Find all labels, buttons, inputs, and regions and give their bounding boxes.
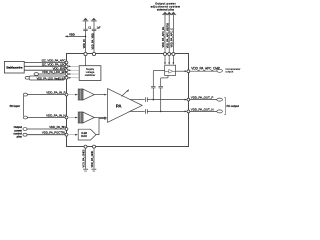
svg-text:VDD_PA_APC_CMP: VDD_PA_APC_CMP	[191, 67, 220, 71]
off-page arrow up A2	[167, 12, 171, 15]
svg-text:VDD_PA_GND: VDD_PA_GND	[90, 151, 94, 168]
wire to comparator oval	[190, 70, 217, 72]
svg-text:VCO_PA_GND1: VCO_PA_GND1	[81, 149, 85, 168]
wire IN_P	[27, 94, 65, 96]
arrow row3 to stabilizer	[68, 69, 79, 71]
arrow row2 to stabilizer	[68, 65, 79, 67]
pin row2	[65, 65, 68, 68]
off-page arrow up A1	[163, 12, 167, 15]
PA input pin N	[23, 116, 27, 119]
wire OUT_P	[147, 99, 185, 101]
pin top1	[84, 52, 87, 55]
PA output stub P	[130, 99, 145, 101]
pin OUT_N	[187, 110, 190, 113]
pin top2	[92, 52, 95, 55]
svg-text:VDD_PA_APC_C: VDD_PA_APC_C	[170, 28, 174, 48]
main IC block	[67, 54, 189, 147]
supply line 2 column	[93, 21, 95, 54]
capacitor C6	[145, 109, 147, 114]
svg-text:1uF: 1uF	[97, 27, 102, 29]
PA output stub N	[130, 110, 145, 112]
svg-text:stabilizer: stabilizer	[85, 73, 96, 77]
arrow into preamp 1	[68, 94, 76, 96]
riser 1 from OUT_P to comparator	[153, 71, 164, 100]
wire preamp1 to PA	[94, 94, 104, 96]
comparator box U4	[165, 65, 176, 75]
svg-text:VDD_PA_BN: VDD_PA_BN	[49, 125, 65, 129]
supply line 1 VDD column	[85, 21, 87, 65]
pin edge IN_P	[65, 93, 68, 96]
svg-text:VDD_PA_APC_BL: VDD_PA_APC_BL	[161, 26, 165, 47]
wire preamp2 to PA	[94, 117, 104, 119]
VDD tap	[85, 36, 87, 38]
pin CMP	[187, 70, 190, 73]
capacitor C4	[159, 86, 163, 88]
svg-text:VDD_PA_APC_REF18: VDD_PA_APC_REF18	[165, 22, 169, 48]
pin P5 capsule	[25, 76, 29, 79]
PA amplifier triangle	[108, 89, 143, 123]
arrow into preamp 2	[68, 117, 76, 119]
bottom pin GND1	[84, 145, 87, 148]
wire bus row5	[30, 77, 66, 79]
wire to oval OUT_P	[190, 99, 217, 101]
arrow into DAC	[68, 134, 76, 136]
svg-text:VDD_PA_IN_N: VDD_PA_IN_N	[46, 113, 65, 117]
preamp A1	[78, 89, 83, 100]
svg-text:C1: C1	[88, 27, 92, 29]
supply voltage stabilizer U3	[79, 66, 101, 81]
pin edge PGCTRL	[65, 133, 68, 136]
pin row3	[65, 69, 68, 72]
comparator output wire	[176, 70, 186, 72]
APC line 3	[172, 15, 174, 54]
svg-text:VDD_PA_OUT_N: VDD_PA_OUT_N	[191, 107, 214, 111]
wire BN	[27, 128, 65, 130]
svg-text:PA output: PA output	[227, 104, 239, 108]
capacitor C2	[92, 29, 97, 30]
svg-text:VDD_PA_LDO_EN: VDD_PA_LDO_EN	[42, 70, 66, 74]
svg-text:VDD_PA_PGCTRL: VDD_PA_PGCTRL	[42, 131, 66, 135]
APC line 2	[168, 15, 170, 54]
pin row1	[65, 61, 68, 64]
wire bus row4	[39, 73, 66, 75]
PA input pin P	[23, 93, 27, 96]
wire bus row2	[24, 65, 65, 67]
svg-text:VDD_IN: VDD_IN	[82, 39, 86, 48]
wire bus row1	[24, 62, 65, 64]
pin A1	[164, 53, 167, 56]
wire bus row3	[24, 69, 65, 71]
off-page arrow up 2	[92, 18, 97, 21]
arrows into comparator	[165, 56, 173, 63]
wire IN_N	[27, 117, 65, 119]
capacitor C3	[151, 86, 155, 88]
control pin BN	[23, 128, 27, 131]
pin edge IN_N	[65, 116, 68, 119]
capacitor C5	[145, 97, 147, 102]
wire DAC to PA	[96, 118, 105, 134]
DAC U5	[78, 129, 96, 140]
svg-text:VDD_PA_IN_P: VDD_PA_IN_P	[46, 91, 65, 95]
off-page arrow up A3	[171, 12, 175, 15]
junction node P	[153, 99, 155, 101]
wire to oval OUT_N	[190, 110, 217, 112]
wire PGCTRL	[27, 134, 65, 136]
svg-text:BaMaxwire: BaMaxwire	[6, 65, 22, 69]
capacitor C1	[83, 29, 87, 30]
control pin PGCTRL	[23, 133, 27, 136]
wire OUT_N	[147, 110, 185, 112]
PA output bracket	[224, 98, 226, 115]
svg-text:DAC: DAC	[81, 134, 87, 138]
terminal oval OUT_N	[217, 110, 223, 113]
ground 2	[91, 168, 96, 171]
pin P4 capsule	[34, 73, 38, 76]
arrow row5 to stabilizer	[68, 77, 79, 79]
pin edge BN	[65, 128, 68, 131]
pin row5	[65, 76, 68, 79]
terminal oval CMP	[217, 69, 223, 72]
pin A3	[172, 53, 175, 56]
caption output power adjustment	[151, 1, 181, 11]
output power control caption	[13, 125, 22, 138]
pin row4	[65, 73, 68, 76]
svg-text:VDD_PA_LDO_Vadj(1.8): VDD_PA_LDO_Vadj(1.8)	[37, 76, 64, 80]
arrow row4 to stabilizer	[68, 73, 79, 75]
pin A2	[168, 53, 171, 56]
pin OUT_P	[187, 98, 190, 101]
junction node N	[160, 111, 162, 113]
off-page arrow up 1	[83, 18, 88, 21]
op-amp symbol inside U4	[169, 69, 173, 73]
svg-text:pins: pins	[17, 135, 23, 139]
svg-text:PA: PA	[116, 104, 122, 109]
svg-text:VDD_PA_OUT_P: VDD_PA_OUT_P	[191, 96, 214, 100]
svg-text:output: output	[225, 70, 233, 74]
preamp A2	[78, 112, 83, 123]
svg-text:VDD_PA_VBD: VDD_PA_VBD	[90, 33, 94, 49]
ground 1	[83, 168, 88, 171]
svg-text:PA input: PA input	[10, 104, 20, 108]
riser 2 from OUT_N to comparator	[161, 75, 168, 111]
svg-text:VDD: VDD	[69, 32, 75, 36]
gain adjust arrow	[122, 90, 128, 96]
transceiver box U2	[4, 61, 24, 73]
terminal oval OUT_P	[217, 98, 223, 101]
bottom pin GND2	[93, 145, 96, 148]
svg-text:external pins: external pins	[157, 7, 175, 11]
PA input bracket	[22, 96, 24, 116]
APC line 1	[164, 15, 166, 54]
